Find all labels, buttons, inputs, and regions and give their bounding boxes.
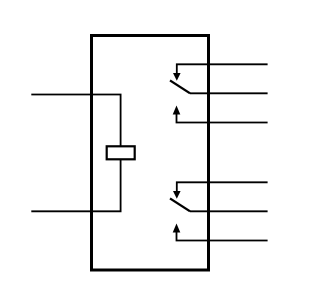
wire contact 2 NC terminal line <box>177 182 268 192</box>
wire contact 1 NC terminal line <box>177 64 268 74</box>
wire contact 1 NO terminal line <box>177 114 268 123</box>
relay body outline K1 <box>92 36 209 271</box>
arrowhead contact 1 NC (down) <box>173 73 181 81</box>
switch blade contact 1 <box>170 80 190 93</box>
relay coil K1 <box>107 146 135 159</box>
arrowhead contact 1 NO (up) <box>173 106 181 115</box>
wire contact 1 common terminal line <box>190 92 268 94</box>
wire coil lead A2 (bottom-left input) <box>31 159 120 211</box>
arrowhead contact 2 NC (down) <box>173 191 181 199</box>
switch blade contact 2 <box>170 198 190 211</box>
arrowhead contact 2 NO (up) <box>173 224 181 233</box>
wire contact 2 NO terminal line <box>177 232 268 241</box>
wire contact 2 common terminal line <box>190 210 268 212</box>
wire coil lead A1 (top-left input) <box>31 95 120 147</box>
